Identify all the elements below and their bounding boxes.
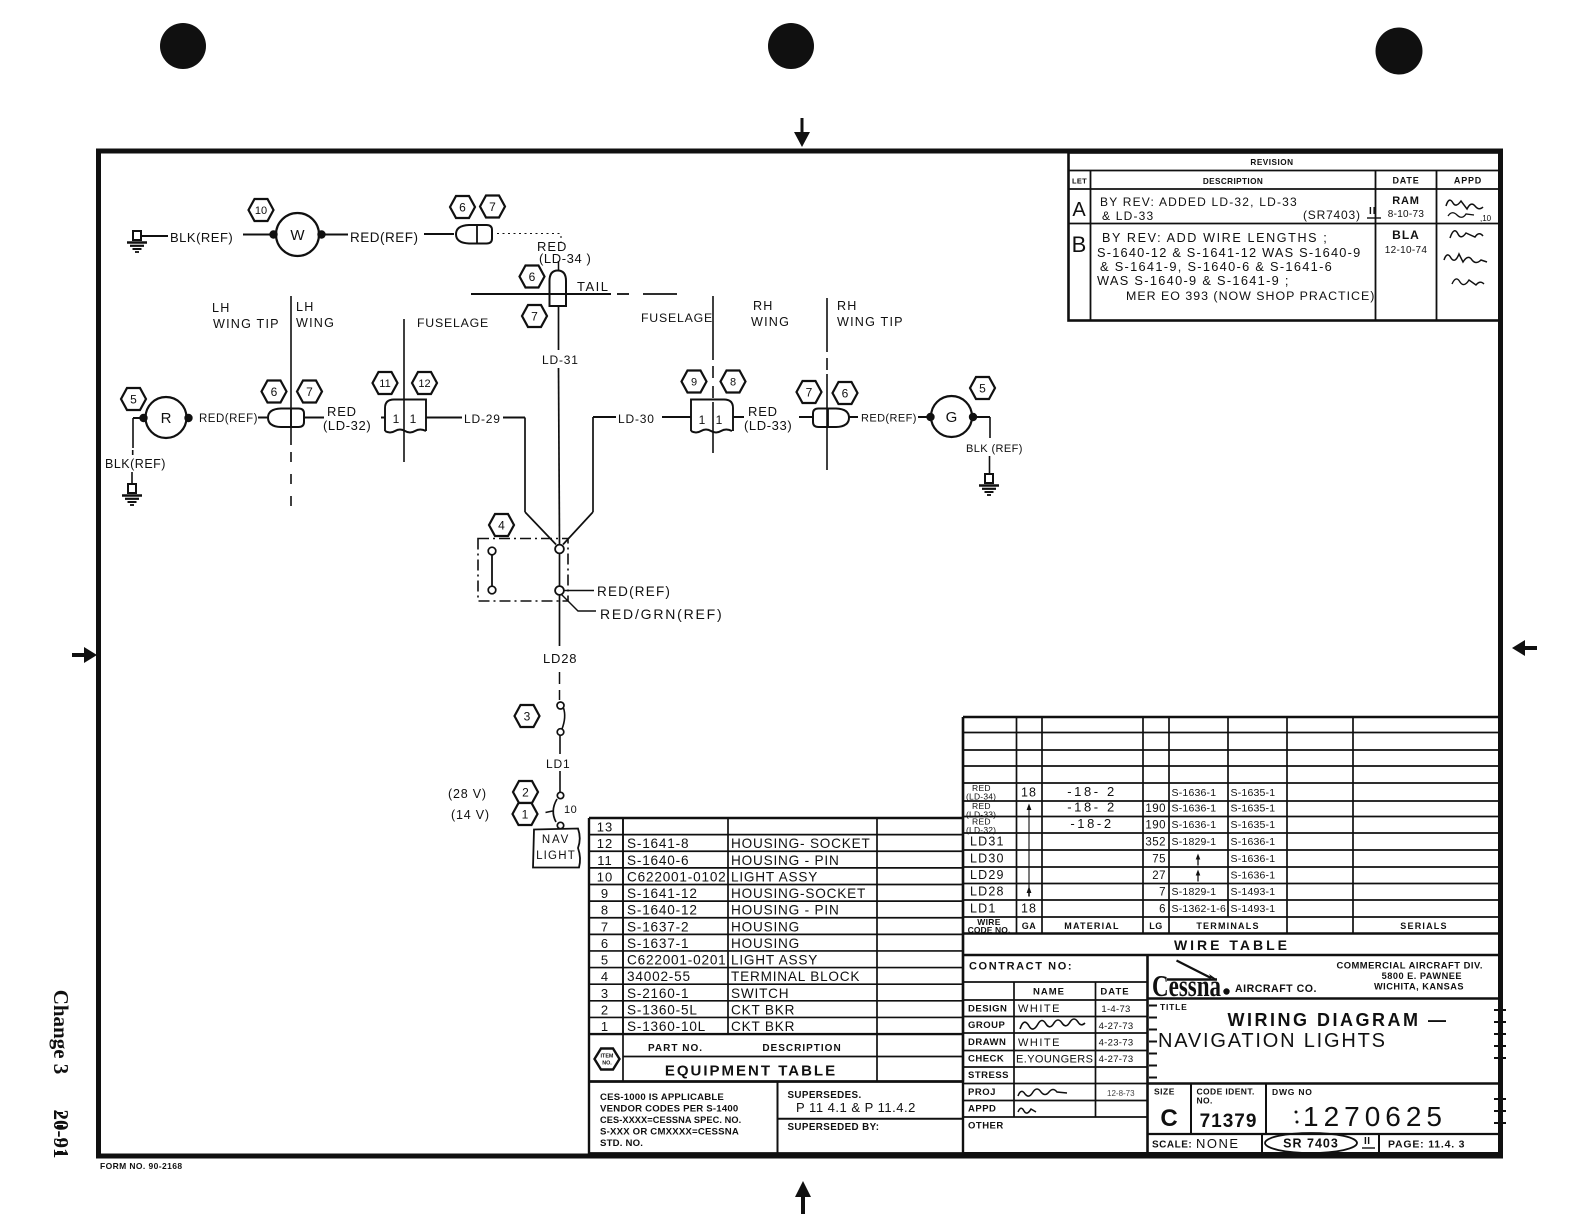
wire	[559, 771, 561, 792]
svg-text:27: 27	[1152, 870, 1166, 882]
hex callout 1	[513, 803, 538, 825]
svg-text:BLK (REF): BLK (REF)	[966, 443, 1023, 455]
svg-text:SWITCH: SWITCH	[731, 986, 789, 1001]
connector housing item 6/7 (LH wing tip)	[268, 409, 304, 428]
hex callout 10	[249, 199, 274, 221]
right alignment arrow	[1512, 640, 1537, 656]
revision row A	[1072, 195, 1491, 223]
hex callout 6	[262, 381, 287, 403]
svg-text:PROJ: PROJ	[968, 1087, 996, 1098]
node junction upper	[555, 545, 564, 554]
equipment row item 7	[601, 919, 800, 934]
svg-text:7: 7	[601, 919, 609, 934]
junction dot	[139, 414, 147, 422]
svg-text:WAS S-1640-9 & S-1641-9 ;: WAS S-1640-9 & S-1641-9 ;	[1097, 273, 1290, 288]
svg-text:7: 7	[306, 385, 313, 399]
svg-text:HOUSING-SOCKET: HOUSING-SOCKET	[731, 886, 866, 901]
svg-text:352: 352	[1145, 837, 1166, 849]
equipment row item 4	[601, 969, 860, 984]
wire	[558, 261, 560, 270]
equipment row item 13	[597, 820, 613, 835]
wire table row LD1	[970, 902, 1275, 916]
svg-text:S-1636-1: S-1636-1	[1172, 819, 1217, 831]
svg-text:DRAWN: DRAWN	[968, 1037, 1006, 1048]
svg-text:S-1636-1: S-1636-1	[1231, 853, 1276, 865]
wire table header	[968, 917, 1448, 953]
svg-text:C622001-0102: C622001-0102	[627, 869, 727, 884]
title block grid	[963, 955, 1500, 1154]
svg-text:-18- 2: -18- 2	[1067, 784, 1117, 799]
svg-text:LG: LG	[1149, 921, 1163, 931]
revision table grid	[1069, 153, 1501, 321]
wire LD-29 bend	[503, 417, 525, 419]
svg-text:TERMINAL BLOCK: TERMINAL BLOCK	[731, 969, 860, 984]
svg-text:STRESS: STRESS	[968, 1070, 1009, 1081]
equipment table grid	[589, 717, 963, 1082]
wire LD-30	[662, 416, 691, 418]
wire LD28	[559, 595, 561, 646]
svg-text:(14 V): (14 V)	[451, 808, 490, 822]
svg-text:DESCRIPTION: DESCRIPTION	[1203, 177, 1263, 186]
svg-text:SCALE:: SCALE:	[1152, 1140, 1192, 1151]
svg-text:LIGHT ASSY: LIGHT ASSY	[731, 953, 818, 968]
svg-text:7: 7	[1159, 887, 1166, 899]
svg-text:4: 4	[601, 969, 609, 984]
hex callout 7	[480, 196, 505, 218]
connector housing item 7/6 (RH wing tip)	[813, 409, 849, 428]
wire	[304, 417, 324, 419]
svg-text:7: 7	[489, 200, 496, 214]
label RED/GRN(REF)	[561, 594, 596, 611]
svg-text:LD1: LD1	[970, 902, 997, 916]
svg-text:S-1635-1: S-1635-1	[1231, 819, 1276, 831]
svg-text:CODE NO.: CODE NO.	[968, 925, 1011, 935]
svg-text:DATE: DATE	[1392, 176, 1419, 186]
wire table row RED(LD-33)	[966, 800, 1275, 820]
svg-text:NONE: NONE	[1196, 1136, 1240, 1151]
svg-text:6: 6	[842, 386, 849, 400]
svg-text:CONTRACT NO:: CONTRACT NO:	[969, 961, 1073, 973]
svg-text:LD-29: LD-29	[464, 412, 501, 426]
wire	[849, 416, 858, 418]
hex callout 6	[833, 382, 858, 404]
svg-text:FUSELAGE: FUSELAGE	[417, 316, 489, 330]
svg-text:8: 8	[730, 376, 736, 388]
svg-text:S-1636-1: S-1636-1	[1231, 870, 1276, 882]
svg-text:(LD-32): (LD-32)	[323, 418, 371, 433]
equipment row item 8	[601, 903, 840, 918]
page number text rotated	[49, 990, 73, 1159]
svg-text:1: 1	[716, 413, 723, 427]
svg-text:RED: RED	[748, 404, 778, 419]
svg-text:HOUSING: HOUSING	[731, 919, 800, 934]
ground G2 (LH wing)	[122, 484, 142, 505]
svg-text:S-1635-1: S-1635-1	[1231, 787, 1276, 799]
svg-text:R: R	[161, 410, 172, 427]
svg-text:190: 190	[1145, 820, 1166, 832]
svg-text:S-1493-1: S-1493-1	[1231, 886, 1276, 898]
item no hexagon symbol	[595, 1049, 620, 1070]
svg-text:8-10-73: 8-10-73	[1388, 209, 1425, 220]
revision row B	[1072, 228, 1487, 303]
wire table row RED(LD-32)	[966, 816, 1275, 835]
group signature	[1020, 1019, 1085, 1029]
svg-text:S-1635-1: S-1635-1	[1231, 803, 1276, 815]
svg-text:II: II	[1364, 1136, 1371, 1147]
svg-text:S-1637-1: S-1637-1	[627, 936, 689, 951]
svg-text:RED(REF): RED(REF)	[350, 230, 419, 245]
svg-text:4-23-73: 4-23-73	[1099, 1038, 1134, 1049]
svg-text:4-27-73: 4-27-73	[1099, 1054, 1134, 1065]
LH fuselage boundary line	[403, 319, 405, 462]
registration dot middle	[768, 23, 814, 69]
equipment row item 1	[601, 1019, 795, 1034]
svg-text:1: 1	[699, 413, 706, 427]
RH fuselage boundary line	[712, 296, 714, 360]
svg-text:C622001-0201: C622001-0201	[627, 953, 727, 968]
connector housing item 6/7 (tail)	[456, 225, 492, 244]
LH wing tip boundary line	[290, 296, 292, 445]
svg-text:HOUSING: HOUSING	[731, 936, 800, 951]
wire to ground	[977, 416, 990, 418]
svg-text:11: 11	[379, 378, 390, 390]
svg-text:HOUSING - PIN: HOUSING - PIN	[731, 903, 840, 918]
svg-text:RED/GRN(REF): RED/GRN(REF)	[600, 606, 723, 622]
wire	[733, 416, 744, 418]
junction dot	[184, 414, 192, 422]
wire LD-29	[426, 417, 462, 419]
svg-text:1: 1	[522, 807, 529, 821]
appd signature	[1018, 1108, 1036, 1113]
equipment row item 11	[597, 853, 839, 868]
Cessna address	[1336, 960, 1483, 992]
svg-text:RED: RED	[327, 404, 357, 419]
svg-text:BY REV: ADD WIRE LENGTHS ;: BY REV: ADD WIRE LENGTHS ;	[1102, 231, 1328, 245]
svg-text:Change 3: Change 3	[49, 990, 73, 1075]
wire (ref, dotted)	[497, 233, 561, 235]
revision table header	[1072, 158, 1482, 186]
junction dot	[969, 413, 977, 421]
svg-text:18: 18	[1021, 786, 1037, 800]
svg-text:(LD-34 ): (LD-34 )	[539, 251, 591, 266]
svg-text:S-1829-1: S-1829-1	[1172, 836, 1217, 848]
svg-text:APPD: APPD	[1454, 176, 1482, 186]
svg-text:75: 75	[1152, 854, 1166, 866]
svg-text:7: 7	[531, 309, 538, 323]
equipment row item 12	[597, 836, 871, 851]
hex callout 12	[412, 372, 437, 394]
svg-text:DESCRIPTION: DESCRIPTION	[762, 1043, 841, 1054]
svg-text:DATE: DATE	[1100, 987, 1129, 998]
svg-text:S-1636-1: S-1636-1	[1172, 803, 1217, 815]
vendor notes box	[589, 1082, 963, 1154]
proj signature	[1018, 1089, 1067, 1096]
svg-text:EQUIPMENT TABLE: EQUIPMENT TABLE	[665, 1063, 837, 1080]
wire LD-30 bend	[593, 416, 616, 418]
svg-text:12: 12	[597, 836, 613, 851]
svg-text:(28 V): (28 V)	[448, 787, 487, 801]
size / code ident / dwg no	[1154, 1087, 1447, 1133]
svg-text:CES-XXXX=CESSNA SPEC. NO.: CES-XXXX=CESSNA SPEC. NO.	[600, 1115, 741, 1125]
svg-text:5: 5	[130, 392, 137, 406]
svg-text:MATERIAL: MATERIAL	[1064, 921, 1119, 931]
svg-text:Cessna: Cessna	[1152, 968, 1221, 1003]
svg-text:NO.: NO.	[602, 1061, 612, 1067]
svg-text:BLA: BLA	[1392, 228, 1420, 242]
wire	[141, 235, 168, 237]
svg-text:WIRING DIAGRAM —: WIRING DIAGRAM —	[1228, 1010, 1449, 1030]
svg-text:A: A	[1072, 199, 1086, 221]
contract / signature block text	[968, 961, 1133, 1132]
svg-text:6: 6	[529, 270, 536, 284]
svg-text:LIGHT ASSY: LIGHT ASSY	[731, 869, 818, 884]
svg-text:RAM: RAM	[1392, 195, 1419, 207]
svg-text:4-27-73: 4-27-73	[1099, 1021, 1134, 1032]
svg-text:WING: WING	[296, 316, 335, 330]
svg-text:CKT BKR: CKT BKR	[731, 1002, 795, 1017]
wire (dashed)	[559, 672, 561, 684]
svg-text:5: 5	[979, 381, 986, 395]
junction dot	[269, 230, 277, 238]
svg-text:SIZE: SIZE	[1154, 1087, 1175, 1097]
hex callout 2	[513, 781, 538, 803]
lamp R (LH wing nav light)	[146, 397, 187, 438]
hex callout 8	[721, 371, 746, 393]
svg-text:2: 2	[522, 785, 529, 799]
svg-text:1: 1	[601, 1019, 609, 1034]
svg-text:CKT BKR: CKT BKR	[731, 1019, 795, 1034]
svg-text:DWG NO: DWG NO	[1272, 1087, 1313, 1097]
tail light assembly (bullet)	[550, 271, 567, 307]
svg-text:S-1362-1-6: S-1362-1-6	[1172, 903, 1227, 915]
hex callout 6	[520, 266, 545, 288]
lamp W (tail nav light)	[276, 213, 319, 256]
connector block items 9/8	[691, 400, 733, 433]
ground G1 (tail light circuit)	[127, 231, 147, 252]
svg-text:NO.: NO.	[1197, 1096, 1213, 1106]
circuit breaker items 1/2	[546, 792, 578, 828]
wire	[381, 417, 385, 419]
svg-text:S-1641-12: S-1641-12	[627, 886, 698, 901]
svg-text:RH: RH	[753, 299, 774, 313]
svg-text:S-1360-10L: S-1360-10L	[627, 1019, 706, 1034]
svg-text:10: 10	[564, 804, 577, 816]
wire table row LD29	[970, 868, 1275, 882]
svg-text:S-2160-1: S-2160-1	[627, 986, 689, 1001]
wire table row LD30	[970, 852, 1275, 866]
svg-text:3: 3	[524, 709, 531, 723]
junction dot	[926, 413, 934, 421]
svg-text:18: 18	[1021, 902, 1037, 916]
hex callout 7	[297, 381, 322, 403]
svg-text:S-1360-5L: S-1360-5L	[627, 1002, 698, 1017]
registration dot right	[1376, 28, 1423, 75]
svg-text:LD30: LD30	[970, 852, 1005, 866]
svg-text:S-1640-12: S-1640-12	[627, 903, 698, 918]
svg-text:S-1829-1: S-1829-1	[1172, 886, 1217, 898]
svg-text:DESIGN: DESIGN	[968, 1004, 1007, 1015]
svg-text:RED(REF): RED(REF)	[597, 584, 671, 599]
lamp G (RH wing nav light)	[931, 396, 972, 437]
svg-text:TERMINALS: TERMINALS	[1196, 921, 1259, 931]
connector block items 11/12	[385, 400, 426, 433]
svg-text:NAV: NAV	[542, 834, 570, 846]
svg-text:AIRCRAFT CO.: AIRCRAFT CO.	[1235, 983, 1317, 995]
svg-text:ITEM: ITEM	[601, 1054, 614, 1060]
svg-text:OTHER: OTHER	[968, 1121, 1004, 1132]
equipment row item 3	[601, 986, 790, 1001]
Cessna logo	[1152, 961, 1317, 1004]
svg-text:II: II	[1369, 206, 1377, 217]
svg-text:1-4-73: 1-4-73	[1101, 1004, 1130, 1015]
svg-text:71379: 71379	[1200, 1111, 1258, 1132]
wire table row LD28	[970, 885, 1275, 899]
terminal block jumper	[488, 547, 496, 594]
svg-text:(LD-34): (LD-34)	[966, 792, 996, 802]
wire LD-31	[558, 306, 560, 350]
wire	[258, 417, 267, 419]
hex callout 4	[489, 514, 514, 536]
equipment row item 2	[601, 1002, 795, 1017]
svg-text:NAVIGATION LIGHTS: NAVIGATION LIGHTS	[1158, 1030, 1387, 1052]
svg-text:9: 9	[601, 886, 609, 901]
svg-text:TAIL: TAIL	[577, 279, 610, 294]
wire	[243, 234, 272, 236]
wire to ground	[133, 417, 142, 419]
svg-text:,10: ,10	[1480, 214, 1492, 223]
svg-text:4: 4	[498, 518, 505, 532]
svg-text:SUPERSEDED BY:: SUPERSEDED BY:	[788, 1122, 880, 1133]
RH wing tip boundary line	[826, 298, 828, 352]
svg-text:P 11 4.1 & P 11.4.2: P 11 4.1 & P 11.4.2	[796, 1100, 916, 1115]
svg-text:12: 12	[418, 378, 430, 390]
svg-text:BLK(REF): BLK(REF)	[170, 230, 233, 245]
svg-text:E.YOUNGERS: E.YOUNGERS	[1016, 1054, 1093, 1066]
svg-text:5: 5	[601, 953, 609, 968]
hex callout 5	[121, 388, 146, 410]
equipment row item 10	[597, 869, 818, 884]
equipment row item 6	[601, 936, 800, 951]
hex callout 6	[450, 196, 475, 218]
svg-text:S-1636-1: S-1636-1	[1172, 787, 1217, 799]
wire	[424, 233, 454, 235]
svg-text:WING TIP: WING TIP	[213, 317, 280, 331]
registration dot left	[160, 23, 206, 69]
equipment row item 9	[601, 886, 866, 901]
svg-text:MER EO 393 (NOW SHOP PRACTICE): MER EO 393 (NOW SHOP PRACTICE)	[1126, 289, 1375, 303]
svg-text:CES-1000 IS APPLICABLE: CES-1000 IS APPLICABLE	[600, 1092, 724, 1103]
svg-text:VENDOR CODES PER S-1400: VENDOR CODES PER S-1400	[600, 1104, 738, 1115]
svg-text:CHECK: CHECK	[968, 1054, 1004, 1065]
svg-text:WING TIP: WING TIP	[837, 315, 904, 329]
switch item 3	[557, 702, 565, 735]
svg-text:G: G	[946, 409, 958, 426]
label RED(REF)	[564, 590, 594, 592]
svg-text:GROUP: GROUP	[968, 1020, 1006, 1031]
svg-text:11: 11	[597, 853, 613, 868]
nav light switch box	[533, 829, 580, 868]
hex callout 7	[797, 381, 822, 403]
svg-text:12-10-74: 12-10-74	[1385, 245, 1428, 256]
svg-text:LD28: LD28	[970, 885, 1005, 899]
svg-text:10: 10	[597, 869, 613, 884]
svg-text:LD-31: LD-31	[542, 353, 579, 367]
svg-text:S-1636-1: S-1636-1	[1231, 836, 1276, 848]
svg-text:WICHITA, KANSAS: WICHITA, KANSAS	[1374, 982, 1464, 992]
svg-text:2: 2	[601, 1002, 609, 1017]
svg-text:LD28: LD28	[543, 651, 577, 666]
svg-text:1270625: 1270625	[1303, 1101, 1447, 1132]
svg-text:GA: GA	[1022, 921, 1037, 931]
tail station line	[471, 293, 611, 295]
svg-text:190: 190	[1145, 803, 1166, 815]
hex callout 3	[515, 705, 540, 727]
wire table row RED(LD-34)	[966, 783, 1275, 801]
drawing title	[1158, 1002, 1448, 1052]
svg-text:TITLE: TITLE	[1160, 1002, 1188, 1012]
hex callout 11	[373, 372, 398, 394]
hex callout 5	[970, 377, 995, 399]
wire	[559, 554, 561, 587]
svg-text:WIRE TABLE: WIRE TABLE	[1174, 937, 1290, 953]
svg-text:LH: LH	[296, 300, 315, 314]
svg-text:6: 6	[601, 936, 609, 951]
svg-text:BY REV: ADDED LD-32, LD-33: BY REV: ADDED LD-32, LD-33	[1100, 195, 1298, 209]
svg-text:STD. NO.: STD. NO.	[600, 1138, 643, 1149]
svg-text:LD31: LD31	[970, 835, 1005, 849]
wire	[989, 456, 991, 474]
svg-text:SERIALS: SERIALS	[1400, 921, 1447, 931]
svg-text:RED(REF): RED(REF)	[861, 413, 917, 425]
svg-text:SR 7403: SR 7403	[1283, 1137, 1339, 1151]
svg-text:B: B	[1072, 232, 1087, 257]
svg-text:RH: RH	[837, 299, 858, 313]
wire	[325, 234, 348, 236]
wire table grid	[963, 717, 1500, 955]
svg-text:13: 13	[597, 820, 613, 835]
svg-text:& LD-33: & LD-33	[1102, 209, 1154, 223]
svg-text:RED(REF): RED(REF)	[199, 413, 258, 425]
svg-text:6: 6	[459, 200, 466, 214]
svg-text:PAGE: 11.4. 3: PAGE: 11.4. 3	[1388, 1139, 1465, 1151]
svg-text:PART NO.: PART NO.	[648, 1043, 703, 1054]
svg-text:6: 6	[1159, 904, 1166, 916]
svg-text:9: 9	[691, 376, 697, 388]
svg-text:W: W	[290, 227, 305, 244]
node junction lower	[555, 586, 564, 595]
left alignment arrow	[72, 647, 97, 663]
svg-text:WING: WING	[751, 315, 790, 329]
svg-text:S-1641-8: S-1641-8	[627, 836, 689, 851]
svg-text:LH: LH	[212, 301, 231, 315]
svg-text:6: 6	[271, 385, 278, 399]
wire table terminals ditto arrows	[1196, 854, 1201, 882]
bottom alignment arrow	[795, 1181, 811, 1214]
wire table row LD31	[970, 835, 1275, 849]
svg-text:COMMERCIAL AIRCRAFT DIV.: COMMERCIAL AIRCRAFT DIV.	[1336, 960, 1483, 971]
svg-text:BLK(REF): BLK(REF)	[105, 457, 166, 471]
svg-text:APPD: APPD	[968, 1104, 996, 1115]
wire LD1	[559, 736, 561, 755]
svg-text:LD1: LD1	[546, 757, 570, 771]
ground G3 (RH wing)	[979, 474, 999, 495]
svg-text:FORM NO. 90-2168: FORM NO. 90-2168	[100, 1161, 182, 1171]
supersedes box	[788, 1090, 916, 1133]
svg-text:HOUSING - PIN: HOUSING - PIN	[731, 853, 840, 868]
svg-text:S-XXX OR CMXXXX=CESSNA: S-XXX OR CMXXXX=CESSNA	[600, 1127, 739, 1138]
equipment row item 5	[601, 953, 818, 968]
svg-text:S-1637-2: S-1637-2	[627, 919, 689, 934]
